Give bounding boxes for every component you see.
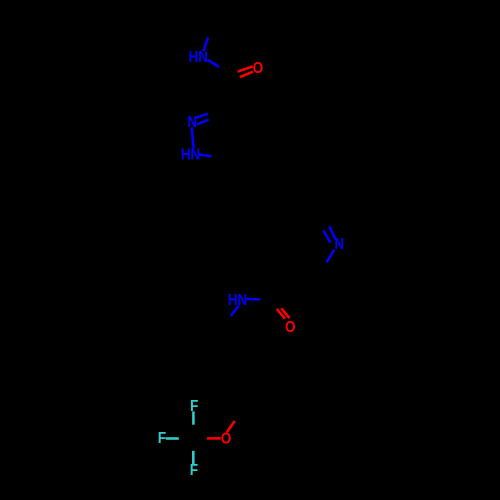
- bond N2=C3 pyrazole double (N half, line 2): [197, 120, 209, 125]
- bond O-CF3 (ether, O half): [207, 437, 221, 440]
- bond N-C(=O) (top amide, N half): [208, 60, 219, 67]
- svg-text:F: F: [190, 398, 198, 415]
- bond C=O double (anilide, O half, line 1): [277, 309, 285, 319]
- bond C=N pyridine double (N half, line 2): [323, 230, 330, 242]
- bond C=O double (anilide, O half, line 2): [281, 308, 289, 318]
- bond C=O double (top amide, O half, line 1): [238, 66, 253, 71]
- bond N1-N2 pyrazole: [192, 127, 194, 148]
- svg-text:HN: HN: [228, 292, 247, 309]
- svg-text:O: O: [221, 430, 232, 447]
- bond O-Ar (ether, O half): [227, 421, 235, 432]
- svg-text:N: N: [334, 236, 344, 253]
- bond C-F top (F half): [192, 411, 195, 424]
- bond C=O double (top amide, O half, line 2): [240, 72, 253, 77]
- svg-text:F: F: [190, 462, 198, 479]
- svg-text:HN: HN: [181, 146, 200, 163]
- svg-text:O: O: [253, 60, 264, 77]
- bond N1-C5 pyrazole (N half): [199, 154, 212, 156]
- bond N-C pyridine (N half): [327, 250, 335, 263]
- bond C-F bottom (F half): [192, 451, 195, 465]
- bond N-Ar (anilide, N half): [231, 305, 239, 316]
- svg-text:F: F: [158, 430, 166, 447]
- svg-text:HN: HN: [189, 49, 208, 66]
- svg-text:N: N: [187, 114, 197, 131]
- bond C-F left (F half): [166, 437, 179, 440]
- bond C=N pyridine double (N half, line 1): [329, 226, 335, 239]
- bond N2=C3 pyrazole double (N half, line 1): [194, 114, 208, 119]
- svg-text:O: O: [285, 319, 296, 336]
- bond N-C(=O) (anilide, N half): [246, 298, 260, 301]
- bond N-CH3 (top methylamide, N half): [203, 38, 208, 52]
